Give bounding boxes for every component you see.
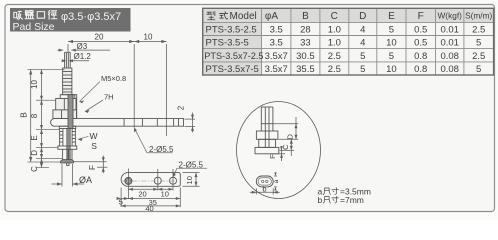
detail oval pad inner <box>258 178 271 185</box>
plate centerline <box>123 180 180 182</box>
dia1.2 dimension <box>71 60 90 62</box>
table grid <box>203 8 494 75</box>
svg-text:W(kgf): W(kgf) <box>437 11 462 21</box>
title char 吸 <box>14 11 23 19</box>
svg-text:5: 5 <box>476 38 481 49</box>
svg-text:b: b <box>318 195 323 205</box>
plate outline <box>121 173 180 187</box>
svg-text:3.5: 3.5 <box>270 38 283 49</box>
svg-text:1.0: 1.0 <box>328 25 341 36</box>
svg-text:2.5: 2.5 <box>472 51 485 62</box>
svg-text:PTS-3.5x7-5: PTS-3.5x7-5 <box>206 64 259 75</box>
detail flange 2 <box>255 147 279 153</box>
svg-text:20: 20 <box>138 189 146 198</box>
detail mid section <box>259 139 276 147</box>
plate hole 3 <box>170 177 177 184</box>
svg-text:10: 10 <box>386 38 397 49</box>
svg-text:S: S <box>91 141 97 151</box>
svg-text:7H: 7H <box>104 93 114 102</box>
threaded stem (dark, in front) <box>68 95 73 129</box>
svg-text:b: b <box>262 184 266 193</box>
svg-text:2.5: 2.5 <box>472 25 485 36</box>
svg-text:=7mm: =7mm <box>340 195 364 205</box>
title char 口 <box>37 12 44 19</box>
svg-text:20: 20 <box>95 33 104 42</box>
svg-text:φ3.5·φ3.5x7: φ3.5·φ3.5x7 <box>61 11 121 23</box>
svg-text:10: 10 <box>161 189 169 198</box>
svg-text:0.01: 0.01 <box>440 25 459 36</box>
table row 2 <box>206 38 482 49</box>
dim F right of pad <box>74 156 108 174</box>
detail oval slots <box>262 180 264 182</box>
title char 徑 <box>48 10 57 19</box>
svg-text:5: 5 <box>360 64 365 75</box>
svg-text:0.08: 0.08 <box>440 51 459 62</box>
lower spring tube <box>60 129 76 147</box>
svg-text:a: a <box>273 179 280 183</box>
plate dim line 20/10 <box>128 188 173 190</box>
note char 寸 <box>332 188 339 195</box>
svg-text:0.8: 0.8 <box>414 51 427 62</box>
spring upper section <box>63 68 72 95</box>
detail oval pad outer <box>256 176 273 187</box>
dim A bottom <box>52 164 85 187</box>
note line b <box>318 195 364 205</box>
svg-text:Pad Size: Pad Size <box>13 21 55 33</box>
left extension lines <box>28 70 65 168</box>
svg-text:10: 10 <box>185 176 194 184</box>
svg-text:3.5x7: 3.5x7 <box>265 64 288 75</box>
plate dim line 5/35 <box>121 198 180 200</box>
top dimension line 20 / 10 <box>68 42 166 137</box>
plate hole 2 <box>154 177 161 184</box>
svg-text:5: 5 <box>360 51 365 62</box>
svg-text:5: 5 <box>119 197 123 206</box>
note line a <box>318 187 371 197</box>
svg-text:Ø3: Ø3 <box>77 42 88 51</box>
sleeve 7H <box>73 95 77 119</box>
arm end thickness dim 2 <box>185 113 196 133</box>
svg-text:2.5: 2.5 <box>328 51 341 62</box>
svg-text:Model: Model <box>230 11 257 22</box>
svg-text:10: 10 <box>30 80 39 89</box>
left dim B line <box>30 70 32 163</box>
svg-text:F: F <box>418 11 424 22</box>
lower plunger stem (dark) <box>67 129 70 160</box>
detail circle outline <box>237 102 321 199</box>
title block background <box>10 8 131 32</box>
svg-text:D: D <box>30 150 39 156</box>
svg-text:4: 4 <box>360 38 365 49</box>
svg-text:D: D <box>359 11 366 22</box>
svg-text:28: 28 <box>300 25 311 36</box>
detail dim C <box>280 139 295 156</box>
svg-text:E: E <box>388 11 395 22</box>
dia3 dimension <box>58 49 111 51</box>
svg-text:33: 33 <box>300 38 311 49</box>
svg-text:1.0: 1.0 <box>328 38 341 49</box>
svg-text:8: 8 <box>30 113 39 118</box>
svg-text:0.5: 0.5 <box>414 25 427 36</box>
arm hole B edges <box>156 119 158 127</box>
washer below arm <box>59 126 75 128</box>
svg-text:S(m/m): S(m/m) <box>465 11 492 21</box>
mounting arm bar <box>51 119 184 127</box>
svg-text:W: W <box>90 131 98 141</box>
svg-text:5: 5 <box>389 25 394 36</box>
svg-text:D: D <box>285 134 294 140</box>
svg-text:40: 40 <box>145 204 153 213</box>
plate dim line 40 <box>121 205 180 207</box>
svg-text:35.5: 35.5 <box>296 64 315 75</box>
svg-text:F: F <box>268 154 277 159</box>
detail flange 1 <box>256 131 278 139</box>
note char 尺 <box>323 188 330 195</box>
svg-text:10: 10 <box>144 33 153 42</box>
svg-text:0.5: 0.5 <box>414 38 427 49</box>
svg-text:2: 2 <box>177 105 186 110</box>
svg-text:5: 5 <box>389 51 394 62</box>
svg-text:PTS-3.5-2.5: PTS-3.5-2.5 <box>206 25 257 36</box>
title char 盤 <box>25 10 34 18</box>
svg-text:ØA: ØA <box>79 175 92 185</box>
svg-text:2.5: 2.5 <box>328 64 341 75</box>
detail dim b <box>250 188 280 194</box>
table row 4 <box>206 64 482 75</box>
table row 3 <box>204 51 485 62</box>
plate hole 1 (pad position) <box>125 177 132 184</box>
detail dim F <box>270 146 285 161</box>
svg-text:C: C <box>331 11 338 22</box>
table header row <box>207 12 228 20</box>
svg-text:M5×0.8: M5×0.8 <box>101 74 126 83</box>
svg-text:0.08: 0.08 <box>440 64 459 75</box>
table backgrounds <box>203 8 494 22</box>
svg-text:0.8: 0.8 <box>414 64 427 75</box>
detail dim D <box>273 117 298 139</box>
lower hex tier <box>53 110 77 119</box>
hex nut <box>56 99 76 110</box>
svg-text:3.5: 3.5 <box>270 25 283 36</box>
washer <box>60 95 75 99</box>
svg-text:F: F <box>88 165 97 170</box>
svg-text:5: 5 <box>476 64 481 75</box>
svg-text:φA: φA <box>265 11 278 22</box>
plate right side dim 10 <box>183 173 200 187</box>
arm end segment line <box>178 119 180 127</box>
header char 式 <box>219 12 227 20</box>
lower column <box>63 149 72 159</box>
pad assembly: top tube <box>65 52 71 68</box>
arm hole A edges <box>123 119 125 127</box>
table outer border <box>203 8 494 75</box>
table row 1 <box>206 25 486 36</box>
svg-text:0.01: 0.01 <box>440 38 459 49</box>
suction pad foot <box>61 160 74 164</box>
note char 寸 <box>332 196 339 203</box>
svg-text:4: 4 <box>360 25 365 36</box>
detail tube <box>261 107 273 147</box>
svg-text:PTS-3.5x7-2.5: PTS-3.5x7-2.5 <box>204 51 263 61</box>
collar <box>58 146 77 149</box>
svg-text:30.5: 30.5 <box>296 51 315 62</box>
svg-text:PTS-3.5-5: PTS-3.5-5 <box>206 38 249 49</box>
header char 型 <box>207 12 215 20</box>
svg-text:10: 10 <box>386 64 397 75</box>
svg-text:Ø1.2: Ø1.2 <box>74 52 92 61</box>
svg-text:3.5x7: 3.5x7 <box>265 51 288 62</box>
plate dim verticals <box>121 169 180 208</box>
svg-text:B: B <box>19 112 29 118</box>
svg-text:E: E <box>30 135 39 140</box>
left chain dim line <box>41 70 43 168</box>
svg-text:C: C <box>30 166 39 172</box>
pad nub <box>67 163 69 166</box>
svg-text:B: B <box>302 11 309 22</box>
note char 尺 <box>323 197 330 204</box>
